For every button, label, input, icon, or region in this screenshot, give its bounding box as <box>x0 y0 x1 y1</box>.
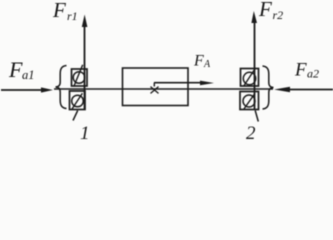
bearing 1 lower box <box>70 91 86 121</box>
bearing 1 upper box <box>72 65 88 87</box>
bearing 2 lower box <box>240 92 259 110</box>
label Fa1 <box>8 57 35 82</box>
force arrow FA <box>154 81 214 87</box>
wire shaft centerline <box>54 88 273 90</box>
svg-text:1: 1 <box>80 123 90 143</box>
label FA <box>193 53 211 71</box>
force arrow Fa1 <box>1 87 53 92</box>
svg-text:r1: r1 <box>67 9 78 23</box>
bracket brace right (bearing 2 support) <box>263 66 274 109</box>
svg-text:F: F <box>193 53 204 70</box>
label Fa2 <box>294 60 319 81</box>
force arrow Fr2 <box>251 11 258 122</box>
force arrow Fa2 <box>274 87 333 92</box>
svg-text:F: F <box>8 57 23 82</box>
svg-text:a1: a1 <box>22 68 35 82</box>
svg-text:F: F <box>52 0 66 22</box>
svg-text:r2: r2 <box>273 8 284 22</box>
svg-text:2: 2 <box>246 123 256 143</box>
label Fr2 <box>258 0 283 22</box>
svg-text:F: F <box>258 0 272 21</box>
housing rectangle <box>123 68 189 106</box>
bracket brace left (bearing 1 support) <box>56 66 67 109</box>
svg-text:A: A <box>203 59 211 70</box>
bearing 2 upper box <box>241 68 259 86</box>
svg-text:a2: a2 <box>307 67 319 81</box>
node x gear point <box>151 87 159 94</box>
label Fr1 <box>52 0 78 23</box>
force arrow Fr1 <box>82 15 88 111</box>
svg-text:F: F <box>294 60 307 81</box>
